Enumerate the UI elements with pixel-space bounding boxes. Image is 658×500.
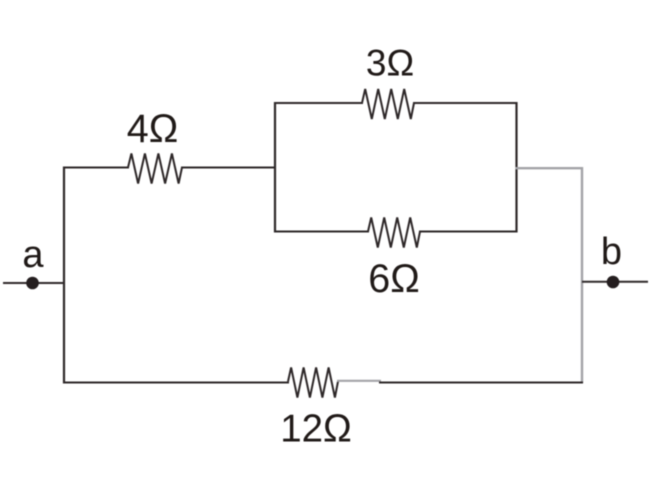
wire: gray resistor lead on bottom rail [337,380,381,382]
wire: parallel block left edge [274,102,276,233]
node b junction dot [607,276,620,289]
wire: top rail right segment to parallel block [181,167,276,169]
svg-text:12Ω: 12Ω [280,408,352,451]
svg-text:b: b [601,231,622,273]
node a junction dot [26,277,39,290]
svg-text:a: a [22,234,44,276]
resistor R1 4Ω [128,154,182,184]
wire: bottom rail left segment [63,382,289,384]
wire: top branch left segment [274,102,363,104]
terminal lead wire at node a [3,282,65,284]
wire: parallel block right edge [515,102,517,233]
wire: right vertical bus (gray) [581,167,583,383]
svg-text:6Ω: 6Ω [368,257,420,301]
resistor R3 6Ω [368,218,420,248]
wire: top branch right segment [413,102,518,104]
terminal lead wire at node b [582,281,648,283]
wire: bottom branch left segment [274,231,369,233]
wire: top rail left segment [63,167,129,169]
wire: bottom branch right segment [419,231,518,233]
resistor R4 12Ω [288,368,338,398]
svg-text:4Ω: 4Ω [127,107,179,151]
wire: gray jumper from parallel block to right bus [516,167,583,169]
wire: left vertical bus [63,167,65,384]
resistor R2 3Ω [362,89,414,119]
svg-text:3Ω: 3Ω [366,43,414,84]
wire: bottom rail right segment [379,382,583,384]
